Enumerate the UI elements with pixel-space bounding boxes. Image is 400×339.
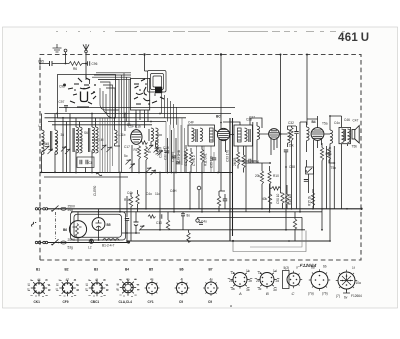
wire det couple — [253, 122, 257, 163]
socket D — [311, 272, 328, 289]
svg-text:C38: C38 — [289, 165, 295, 169]
svg-text:B3: B3 — [94, 268, 98, 272]
node left border — [39, 63, 41, 65]
wire x277 down — [280, 55, 282, 194]
svg-text:B4: B4 — [125, 268, 129, 272]
coil L10 pair — [92, 127, 95, 141]
svg-text:C20 1M: C20 1M — [159, 146, 163, 158]
osc shield lines — [168, 130, 177, 173]
wire r25 — [321, 143, 323, 230]
svg-text:2d: 2d — [276, 279, 280, 283]
svg-text:CBC1: CBC1 — [91, 300, 100, 304]
tube B3 demod — [269, 129, 280, 140]
OPT core — [344, 129, 345, 141]
tube B1 electrode glyphs — [68, 78, 96, 107]
svg-text:8o: 8o — [187, 214, 191, 218]
trimmer C3 — [61, 147, 66, 152]
svg-text:C21 170: C21 170 — [164, 148, 168, 160]
wire r17b — [137, 190, 139, 212]
svg-text:L7: L7 — [39, 124, 43, 128]
wire r15 — [312, 189, 314, 209]
wire midband verticals — [120, 173, 202, 230]
capacitor C20 — [172, 156, 176, 158]
coil L8 — [55, 130, 58, 144]
node antenna junction — [85, 63, 87, 65]
resistor R23 — [285, 194, 288, 204]
bus y211.8 — [71, 211, 322, 213]
svg-text:1f: 1f — [352, 266, 355, 270]
long verticals from box1 nested wires down — [100, 118, 113, 173]
node c38 — [285, 166, 287, 168]
wire x221 down — [220, 55, 222, 130]
svg-text:6b: 6b — [323, 265, 327, 269]
capacitor C92 — [63, 84, 66, 87]
trimmer mix b — [130, 164, 135, 169]
ground symbol top — [53, 44, 62, 52]
wire c31 — [213, 152, 215, 173]
wire terminal E — [198, 190, 200, 209]
switch S1 — [52, 206, 59, 212]
svg-text:C17: C17 — [124, 145, 130, 149]
socket B — [255, 272, 280, 289]
trimmer C14 — [154, 148, 159, 153]
socket specks extra — [27, 279, 140, 297]
svg-text:B5: B5 — [107, 223, 111, 227]
wire L13 — [288, 126, 297, 147]
svg-text:C22 49: C22 49 — [171, 151, 175, 162]
svg-text:6v: 6v — [344, 296, 348, 300]
trimmer C13 — [148, 145, 153, 150]
svg-text:3b: 3b — [246, 288, 250, 292]
resistor R7b — [236, 152, 239, 165]
svg-text:1k: 1k — [148, 150, 152, 154]
tube B2 IF amp — [217, 128, 229, 140]
oscillator coil S4b — [156, 128, 159, 142]
wire B2 leads — [215, 130, 234, 173]
wire x334 — [327, 146, 335, 209]
svg-text:10a: 10a — [356, 281, 362, 285]
wire x307 down — [306, 55, 308, 126]
wire OPT — [342, 116, 348, 209]
svg-text:4v: 4v — [210, 278, 214, 282]
svg-text:4o: 4o — [126, 278, 130, 282]
socket C plate — [283, 271, 290, 289]
svg-text:BC: BC — [216, 115, 221, 119]
terminal post top — [64, 49, 67, 52]
wire r7b — [238, 146, 244, 173]
svg-text:A: A — [238, 291, 242, 296]
wire r17 — [219, 150, 225, 212]
bus HT y208.8 — [47, 208, 362, 210]
resistor R21 — [281, 193, 284, 203]
node osc bottoms — [155, 172, 177, 174]
wire antenna down — [85, 53, 87, 64]
capacitor C45 — [199, 222, 203, 224]
node top border x144 — [143, 53, 145, 55]
speaker — [352, 126, 359, 144]
svg-text:C10: C10 — [156, 221, 162, 225]
IFT1 coil a — [192, 128, 195, 142]
trimmer C15 — [158, 151, 163, 156]
svg-text:3d: 3d — [273, 288, 277, 292]
node top border x221 — [220, 53, 222, 55]
heater loop inner — [74, 214, 122, 237]
capacitor C51 — [304, 180, 308, 182]
coil core L8 — [50, 131, 51, 151]
svg-text:B: B — [266, 291, 269, 296]
mains terminal N2b — [45, 241, 47, 243]
svg-text:CLER0: CLER0 — [93, 185, 97, 196]
nested rects B2 right — [148, 71, 167, 93]
wire B5 leads — [98, 209, 100, 240]
wire r14c — [188, 230, 190, 243]
mains terminal N1b — [38, 241, 40, 243]
coil det L13 — [288, 130, 291, 144]
svg-text:F12664: F12664 — [351, 294, 362, 298]
capacitor C31 — [212, 158, 216, 160]
coil L11 — [115, 130, 118, 144]
scan noise dotted row — [56, 31, 345, 33]
wire mains bottom — [48, 242, 129, 244]
svg-text:C32: C32 — [288, 121, 294, 125]
node top border x307 — [306, 54, 308, 56]
svg-text:1a: 1a — [231, 271, 235, 275]
antenna symbol — [83, 44, 89, 50]
IF transformer 1 box — [188, 125, 215, 146]
node dots buses — [119, 208, 348, 242]
wire c39 — [292, 126, 297, 209]
wire tube B1 top — [125, 114, 136, 132]
svg-text:C4o: C4o — [201, 220, 207, 224]
wire mains entry top — [35, 208, 43, 210]
svg-text:CLA,CL4: CLA,CL4 — [119, 300, 133, 304]
resistor R17b — [136, 194, 139, 204]
wire c44 — [182, 212, 184, 230]
resistor R7 — [184, 149, 187, 162]
oscillator coil S4a — [151, 128, 154, 142]
capacitor C40 — [160, 214, 162, 218]
capacitor C96 — [88, 61, 90, 66]
svg-text:2c: 2c — [256, 279, 260, 283]
ground bus — [40, 172, 232, 174]
wire corner lower — [233, 231, 306, 252]
rectifier internals — [96, 220, 102, 230]
electrolytic C42 — [134, 222, 139, 226]
resistor R14c — [187, 233, 190, 243]
svg-text:C23 2HB: C23 2HB — [177, 150, 181, 163]
svg-text:B6: B6 — [63, 228, 67, 232]
resistor R7c — [242, 155, 245, 168]
wire c41 — [126, 220, 128, 241]
wire RF distribution h4 — [52, 124, 152, 126]
node tube B1 — [135, 113, 137, 115]
wire x144 down — [144, 55, 146, 72]
resistor R19 — [293, 219, 296, 229]
wire r20 — [270, 184, 272, 195]
svg-text:B1-2-4-7: B1-2-4-7 — [102, 244, 115, 248]
svg-text:R10: R10 — [273, 174, 279, 178]
wire into nested — [145, 71, 156, 96]
svg-text:B6: B6 — [180, 268, 184, 272]
svg-text:(7a): (7a) — [308, 292, 314, 296]
trimmer osc b — [151, 170, 156, 175]
mains terminal N2 — [43, 241, 45, 243]
resistor R22 — [268, 194, 271, 204]
heater chain bumps — [103, 239, 120, 241]
wire c34 — [238, 160, 256, 162]
resistor R20 horizontal — [272, 187, 281, 191]
lamp L2 — [89, 239, 93, 243]
wire r5b — [329, 160, 334, 163]
wire IF shield pair — [230, 118, 233, 241]
svg-text:(7b): (7b) — [322, 292, 328, 296]
IFT2 coil a — [245, 128, 248, 142]
resistor R6 — [69, 62, 82, 66]
wire r16 — [127, 193, 131, 241]
svg-text:C7H0 2: C7H0 2 — [192, 155, 196, 166]
svg-text:R6: R6 — [73, 67, 77, 71]
coil det couple — [257, 126, 260, 140]
socket C — [287, 273, 300, 286]
wire RF distribution h0 — [59, 107, 235, 109]
wire r19 — [294, 212, 296, 241]
resistor R25 — [320, 148, 323, 161]
coil L9 pair — [76, 127, 79, 141]
barretter B6 — [69, 221, 86, 238]
svg-text:4f: 4f — [95, 278, 98, 282]
svg-text:S6: S6 — [84, 131, 88, 135]
bundle corner arcs — [100, 88, 119, 118]
resistor R5b — [327, 147, 330, 160]
svg-text:L11b: L11b — [119, 133, 126, 137]
wire c38 vert — [285, 152, 287, 230]
wire r22b — [269, 204, 271, 209]
socket B6 — [175, 281, 190, 296]
terminal P — [196, 219, 199, 222]
wire r21 — [281, 193, 283, 209]
wire under tube — [132, 142, 156, 173]
svg-text:C4b: C4b — [127, 191, 133, 195]
bus y229.8 — [140, 229, 305, 231]
socket B7 — [203, 280, 219, 296]
svg-text:40k: 40k — [262, 197, 268, 201]
svg-text:5o: 5o — [124, 154, 128, 158]
node r5b — [333, 162, 335, 164]
capacitor in padder — [80, 160, 82, 164]
tube B2 internals — [218, 130, 229, 140]
svg-text:461 U: 461 U — [338, 32, 369, 44]
svg-text:C97: C97 — [59, 100, 65, 104]
resistor R17 — [217, 196, 220, 206]
IFT2 trimmer ladder — [238, 128, 242, 142]
wire choke L14 — [324, 116, 342, 209]
svg-text:R11 0M1: R11 0M1 — [204, 153, 208, 166]
IFT2 cores — [249, 129, 250, 142]
svg-text:B1: B1 — [36, 268, 40, 272]
trimmer C1 — [44, 146, 49, 151]
capacitor C46 — [223, 199, 227, 201]
trimmer osc a — [146, 168, 151, 173]
svg-text:1M: 1M — [99, 138, 104, 142]
wire choke — [300, 122, 307, 212]
wire terminal down — [65, 52, 67, 64]
fuse F1 — [61, 207, 67, 210]
svg-text:C9: C9 — [179, 300, 183, 304]
coil core L9 — [73, 128, 74, 152]
wire x330 down — [329, 209, 331, 241]
core osc — [149, 129, 162, 141]
padder box C8 — [77, 157, 94, 168]
volume pot bracket — [306, 167, 314, 174]
svg-text:CF9: CF9 — [63, 300, 69, 304]
tube B1 mixer — [131, 130, 142, 145]
tube B4 internals — [312, 130, 323, 138]
node b2 — [220, 122, 222, 124]
socket B1 — [28, 280, 51, 296]
mains terminal L1 — [35, 208, 37, 210]
svg-text:1d: 1d — [273, 269, 277, 273]
coil choke det — [307, 127, 310, 141]
trimmer mains — [139, 226, 144, 231]
wire box2 bottom stubs — [136, 110, 148, 128]
svg-text:C: C — [292, 291, 295, 296]
wire verticals to coils — [42, 114, 115, 173]
OPT coil b — [348, 129, 351, 143]
nested wiring bundle box1 to box2 — [92, 73, 131, 173]
capacitor C22 — [176, 162, 180, 164]
tube box B2 section — [131, 78, 150, 110]
wire inside box — [66, 75, 86, 113]
wire IFT2 top — [223, 118, 262, 128]
svg-text:C9: C9 — [208, 300, 212, 304]
socket B4 inner ring — [125, 284, 131, 290]
wire top horizontal — [40, 63, 87, 65]
wires osc right verticals — [166, 118, 182, 173]
resistor R15 — [311, 193, 314, 206]
svg-text:C95: C95 — [38, 60, 44, 64]
OPT coil a — [342, 129, 345, 143]
wire ift2 bottom — [245, 146, 247, 212]
node T24 — [127, 240, 130, 243]
svg-text:1c: 1c — [258, 271, 262, 275]
svg-text:C33 170: C33 170 — [226, 150, 230, 162]
svg-text:C4o: C4o — [146, 192, 152, 196]
osc coil L12 — [156, 141, 159, 155]
socket B4 — [117, 279, 140, 295]
svg-text:CY1: CY1 — [148, 300, 154, 304]
terminal post antenna — [85, 50, 88, 53]
capacitor C41 — [125, 219, 129, 221]
svg-text:C46: C46 — [344, 118, 350, 122]
mains terminal L1b — [38, 208, 40, 210]
trimmer C6 — [107, 147, 112, 152]
svg-text:C4F: C4F — [188, 121, 194, 125]
resistor R16 — [129, 197, 132, 207]
resistor R9 — [268, 171, 271, 184]
resistor R2 — [144, 147, 147, 160]
svg-text:B4: B4 — [312, 120, 316, 124]
wire mains entry bottom — [41, 242, 43, 244]
switch S2 — [52, 239, 59, 245]
node bus end — [360, 208, 362, 210]
wire c34 row — [245, 162, 271, 164]
svg-text:R15 2k: R15 2k — [308, 195, 312, 206]
resistor horizontal mix — [140, 141, 148, 145]
wire B6 leads — [77, 212, 79, 243]
capacitor C95 — [50, 61, 53, 66]
capacitor C19 — [165, 151, 169, 153]
svg-text:L2: L2 — [88, 246, 92, 250]
bus y218 — [198, 216, 303, 218]
tube box B1 oscillator section — [58, 75, 116, 119]
svg-text:4k5: 4k5 — [44, 142, 49, 146]
wire pot — [307, 160, 309, 193]
dashed border — [40, 55, 361, 261]
svg-text:4i: 4i — [181, 278, 184, 282]
trimmer C5 — [101, 145, 106, 150]
svg-text:T5b: T5b — [352, 145, 358, 149]
node b5 — [98, 239, 100, 241]
wire RF distribution h2 — [45, 117, 187, 119]
svg-text:53g: 53g — [68, 246, 74, 250]
anode plate dark — [155, 87, 162, 93]
svg-text:47: 47 — [66, 278, 70, 282]
svg-text:54g: 54g — [68, 208, 74, 212]
svg-text:C47: C47 — [353, 119, 359, 123]
tube B3 internals — [270, 131, 279, 137]
resistor R11 tall — [200, 150, 203, 163]
svg-text:F12664: F12664 — [299, 263, 317, 268]
node dots bus — [41, 171, 219, 173]
trimmer C4 — [65, 149, 70, 154]
mains terminal N1 — [35, 241, 37, 243]
IFT1 trimmer ladder — [210, 128, 214, 142]
heater loop outer — [71, 212, 126, 240]
svg-text:(7): (7) — [336, 294, 340, 298]
svg-text:5(2): 5(2) — [284, 266, 290, 270]
wire r11 — [201, 146, 203, 173]
wire RF distribution h1 — [45, 113, 232, 115]
svg-text:3a: 3a — [231, 287, 235, 291]
resistor R14 horizontal — [148, 215, 156, 218]
resistor R8 — [260, 171, 263, 184]
resistor R13 15k — [290, 128, 293, 141]
svg-text:T5a: T5a — [322, 122, 328, 126]
wire mains link — [122, 232, 140, 234]
svg-text:B2: B2 — [65, 268, 69, 272]
socket A — [228, 272, 253, 289]
vertical bundle box2 down — [162, 92, 177, 128]
fuse F2 — [61, 241, 67, 244]
wire tube B1 inner lead — [86, 75, 90, 85]
svg-text:B5: B5 — [149, 268, 153, 272]
socket B2 — [56, 280, 79, 296]
svg-text:C27: C27 — [249, 116, 255, 120]
svg-text:B1: B1 — [127, 123, 131, 127]
node top border x277 — [280, 54, 282, 56]
wire RF distribution h3 — [48, 121, 166, 123]
node dots on distribution — [56, 113, 161, 123]
AC symbol — [32, 222, 37, 227]
socket E — [338, 272, 355, 289]
bus second line — [44, 176, 128, 178]
svg-text:C92: C92 — [59, 85, 65, 89]
svg-text:B7: B7 — [209, 268, 213, 272]
svg-text:4e: 4e — [150, 278, 154, 282]
svg-text:T5o: T5o — [331, 166, 337, 170]
wire r7 — [186, 145, 191, 173]
svg-text:2b: 2b — [249, 279, 253, 283]
